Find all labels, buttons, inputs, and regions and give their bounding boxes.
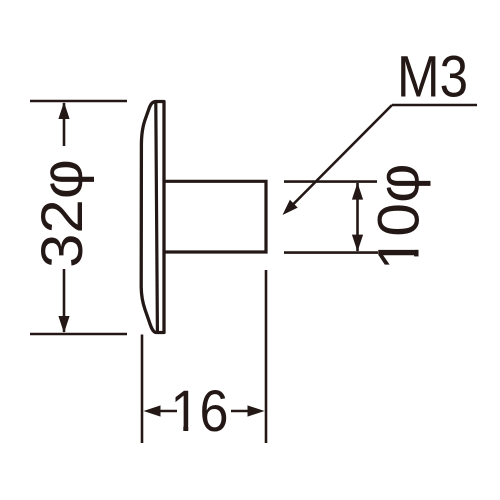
M3 leader arrowhead: [283, 200, 298, 215]
dim 16 right shaft: [231, 410, 248, 413]
dim 32phi upper shaft: [63, 103, 66, 146]
patch: hide foot serif of 1 in 10phi: [414, 238, 423, 250]
dim 32phi top tick: [30, 100, 127, 103]
dim 10phi lower arrowhead: [352, 235, 363, 252]
dim 32phi lower arrowhead: [58, 316, 69, 333]
dim 10phi shaft: [356, 183, 359, 251]
svg-text:M3: M3: [397, 45, 468, 110]
stem (shaft): [165, 181, 266, 252]
dim 32phi bottom tick: [30, 333, 127, 336]
dim 10phi upper arrowhead: [352, 183, 363, 200]
dim 16 right tick: [265, 270, 268, 443]
dim 32phi lower shaft: [63, 269, 66, 332]
svg-text:10φ: 10φ: [367, 164, 432, 271]
knob rim line: [156, 103, 158, 331]
M3 underline: [392, 104, 477, 107]
dim 16 right arrowhead: [248, 405, 265, 416]
patch: hide foot serif of 1 in 16: [173, 425, 184, 433]
dim 32phi upper arrowhead: [58, 102, 69, 119]
knob cap outline: [141, 102, 164, 333]
dim 16 left shaft: [160, 410, 177, 413]
dim 16 left arrowhead: [144, 405, 161, 416]
dim 10phi bottom tick: [284, 251, 378, 254]
M3 leader line: [288, 105, 392, 210]
dim 16 left tick: [141, 335, 144, 444]
svg-text:32φ: 32φ: [30, 159, 95, 268]
dim 10phi top tick: [284, 180, 377, 183]
svg-text:16: 16: [171, 379, 229, 444]
